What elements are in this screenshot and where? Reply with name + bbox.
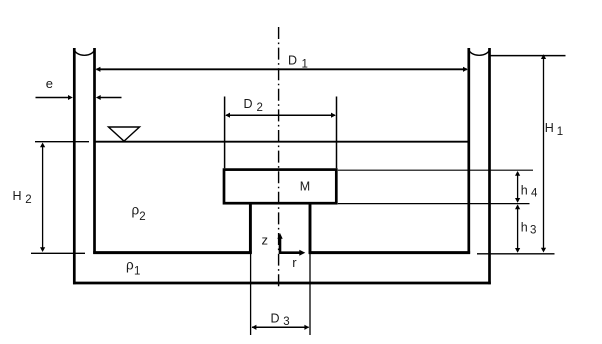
free surface line [95,141,469,143]
H2 bottom tick [31,252,85,254]
centerline (vertical dash-dot axis) [278,27,280,288]
dimension h4 line with arrows [517,172,519,202]
svg-text:1: 1 [134,266,140,278]
r axis [279,251,300,254]
svg-text:H: H [545,121,554,135]
dimension H2 line with arrows [42,144,44,251]
D2 extension line left [224,97,226,169]
svg-text:D: D [271,312,280,326]
svg-text:3: 3 [283,316,289,328]
right inner wall [467,48,470,254]
svg-text:2: 2 [257,102,263,114]
svg-text:2: 2 [25,194,31,206]
svg-text:ρ: ρ [132,202,140,217]
bottom tick shared by h3 and H1 [477,253,555,255]
dimension h3 line with arrows [517,206,519,252]
D3 extension line left [250,254,252,335]
dimension D1 line with arrows [97,68,467,70]
svg-text:r: r [292,255,297,270]
svg-text:h: h [521,183,528,197]
dimension D2 line with arrows [226,114,335,116]
svg-text:2: 2 [139,211,145,223]
svg-text:3: 3 [530,224,536,236]
D3 extension line right [309,254,311,335]
outer bottom [73,282,491,285]
H2 top tick [35,141,89,143]
svg-text:D: D [288,54,297,68]
svg-text:D: D [244,97,253,111]
inner bottom left segment [93,251,252,254]
dimension e: left arrow [36,97,71,99]
block M [224,170,336,204]
dimension D3 line with arrows [252,326,309,328]
foot left wall [249,203,252,253]
svg-text:1: 1 [302,59,308,71]
svg-text:h: h [521,220,528,234]
dimension H1 line with arrows [543,56,545,251]
right rim arc [469,49,490,56]
water level triangle symbol [109,127,140,141]
svg-text:H: H [13,189,22,203]
svg-text:1: 1 [557,126,563,138]
svg-text:e: e [46,76,53,91]
H1 top tick [490,55,566,57]
h4 top tick (block top extended) [338,169,533,171]
left outer wall [73,48,76,284]
svg-text:ρ: ρ [126,258,134,273]
h4/h3 middle tick (block bottom extended) [338,203,530,205]
left rim arc [74,49,94,55]
svg-text:M: M [300,180,310,194]
z axis [279,238,282,254]
left inner wall [93,48,96,254]
right outer wall [488,48,491,284]
dimension e: right arrow [99,97,122,99]
D2 extension line right [336,97,338,169]
foot right wall [309,203,312,253]
svg-text:z: z [262,232,269,247]
svg-text:4: 4 [531,188,538,200]
inner bottom right segment [309,251,471,254]
